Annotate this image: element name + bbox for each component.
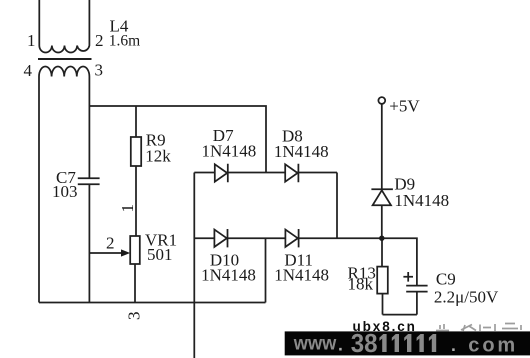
wire: R13 top lead xyxy=(381,238,383,266)
wire: R9 bottom lead to VR1 xyxy=(135,166,137,236)
svg-text:2.2μ/50V: 2.2μ/50V xyxy=(434,288,499,307)
capacitor C9 plates xyxy=(406,286,427,292)
svg-text:com: com xyxy=(468,335,518,357)
watermark digit ones xyxy=(379,334,436,352)
svg-text:+5V: +5V xyxy=(389,97,420,116)
diode D9 xyxy=(371,189,393,205)
svg-text:www: www xyxy=(293,334,337,355)
watermark black banner xyxy=(285,331,530,355)
capacitor C7 plates xyxy=(78,178,100,184)
svg-text:C9: C9 xyxy=(436,270,456,289)
watermark faint marks xyxy=(436,324,521,332)
svg-text:.: . xyxy=(338,335,343,355)
VR1 wiper arrowhead xyxy=(121,249,130,256)
bridge mid column lower wire xyxy=(265,238,267,302)
transformer L4 primary winding xyxy=(39,0,89,53)
svg-text:501: 501 xyxy=(147,245,173,264)
transformer L4 core xyxy=(38,58,92,60)
transformer L4 secondary winding xyxy=(39,67,89,303)
svg-text:.: . xyxy=(451,335,456,355)
svg-text:4: 4 xyxy=(24,61,33,80)
wire: D9 to junction xyxy=(381,205,383,238)
svg-text:1: 1 xyxy=(118,204,137,213)
svg-text:3: 3 xyxy=(95,61,104,80)
wire: junction to C9 corner and down xyxy=(382,238,417,285)
svg-text:3: 3 xyxy=(125,312,144,321)
bottom rail wire xyxy=(39,302,266,304)
wire: R9 top lead xyxy=(135,106,137,137)
svg-text:1N4148: 1N4148 xyxy=(202,142,257,161)
svg-text:1: 1 xyxy=(27,31,36,50)
diode D8 xyxy=(285,164,298,182)
+5V terminal circle xyxy=(378,97,385,104)
svg-text:1N4148: 1N4148 xyxy=(274,266,329,285)
svg-text:2: 2 xyxy=(95,31,104,50)
svg-text:18k: 18k xyxy=(348,275,374,294)
C9 plus sign xyxy=(403,272,413,282)
svg-text:1N4148: 1N4148 xyxy=(201,266,256,285)
diode D11 xyxy=(285,229,298,247)
bottom right wire R13 to C9 xyxy=(383,314,417,316)
bridge bottom row wire to junction xyxy=(194,237,382,239)
svg-text:1N4148: 1N4148 xyxy=(274,142,329,161)
svg-text:12k: 12k xyxy=(145,147,171,166)
wire: VR1 bottom lead xyxy=(134,264,136,303)
wire: top rail from pin3 line to bridge mid column xyxy=(89,106,266,173)
diode D10 xyxy=(214,229,227,247)
svg-text:1N4148: 1N4148 xyxy=(394,191,449,210)
bridge right rail wire xyxy=(336,173,338,239)
wire: VR1 wiper arrow line xyxy=(89,252,122,254)
potentiometer VR1 body xyxy=(130,236,140,264)
wire: +5V down to D9 xyxy=(381,104,383,189)
bridge left rail wire xyxy=(193,173,195,358)
wire: R13 bottom lead xyxy=(382,294,384,315)
resistor R9 xyxy=(131,137,141,166)
resistor R13 xyxy=(377,267,388,294)
junction node dot xyxy=(379,236,384,241)
svg-text:38: 38 xyxy=(351,328,378,358)
bridge top row wire xyxy=(194,172,337,174)
wire: pin3 node down from C7 to bottom rail xyxy=(88,185,90,303)
svg-text:103: 103 xyxy=(52,182,78,201)
svg-text:2: 2 xyxy=(106,234,115,253)
wire: C9 bottom lead xyxy=(416,292,418,315)
diode D7 xyxy=(215,164,228,182)
svg-text:1.6m: 1.6m xyxy=(109,32,140,49)
